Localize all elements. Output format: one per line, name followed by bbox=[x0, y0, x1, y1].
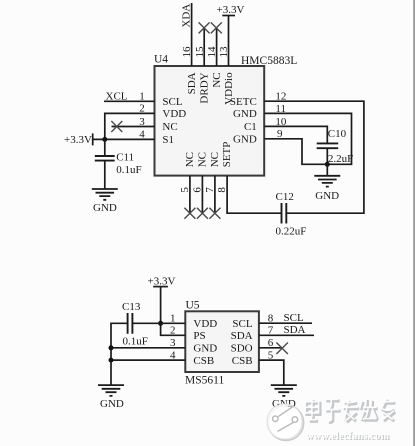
svg-text:2: 2 bbox=[170, 325, 176, 337]
svg-text:15: 15 bbox=[194, 46, 206, 58]
svg-text:9: 9 bbox=[277, 128, 283, 140]
svg-text:8: 8 bbox=[216, 187, 228, 193]
svg-text:CSB: CSB bbox=[232, 355, 253, 367]
svg-text:6: 6 bbox=[268, 337, 274, 349]
junction dot C10/GND bbox=[325, 162, 330, 167]
svg-text:4: 4 bbox=[170, 349, 176, 361]
svg-text:DRDY: DRDY bbox=[199, 72, 211, 103]
svg-text:SETC: SETC bbox=[230, 96, 257, 108]
svg-text:www.elecfans.com: www.elecfans.com bbox=[306, 431, 389, 442]
svg-text:C12: C12 bbox=[276, 191, 294, 203]
svg-text:GND: GND bbox=[193, 342, 217, 354]
IC U4 HMC5883L chip body bbox=[155, 66, 265, 176]
svg-text:8: 8 bbox=[268, 312, 274, 324]
wire pin1 SCL / XCL net bbox=[104, 100, 155, 102]
svg-text:S1: S1 bbox=[162, 134, 174, 146]
svg-text:SDA: SDA bbox=[284, 324, 306, 336]
no-connect X pin3 bbox=[111, 121, 122, 132]
ground symbol below C10 bbox=[314, 176, 340, 187]
wire pin7 SDA (U5) bbox=[259, 334, 314, 336]
junction dot +3.3V/C11 bbox=[102, 137, 107, 142]
svg-text:+3.3V: +3.3V bbox=[64, 134, 92, 146]
wire pin15 bbox=[203, 28, 205, 66]
ground symbol below C11 bbox=[92, 189, 118, 200]
svg-text:SCL: SCL bbox=[284, 312, 304, 324]
svg-text:NC: NC bbox=[162, 121, 177, 133]
svg-text:11: 11 bbox=[275, 103, 286, 115]
wire +3.3V junction down to C11 bbox=[104, 139, 106, 156]
no-connect X pin5 bbox=[184, 208, 195, 219]
junction dot pin3/rail bbox=[109, 345, 114, 350]
svg-text:SDA: SDA bbox=[186, 72, 198, 94]
capacitor C12 plates bbox=[282, 203, 287, 224]
svg-text:U5: U5 bbox=[186, 299, 200, 311]
no-connect X pin14 bbox=[211, 22, 222, 33]
svg-text:C11: C11 bbox=[116, 151, 134, 163]
wire pin4 S1 from +3.3V bbox=[93, 138, 155, 140]
no-connect X pin6 (U5) bbox=[276, 343, 288, 355]
wire pin5 NC stub bbox=[189, 176, 191, 214]
wire +3.3V down to pin2 bbox=[161, 287, 186, 336]
wire pin10 C1 to C10 top bbox=[264, 126, 327, 143]
page right border bbox=[413, 0, 415, 446]
svg-text:3: 3 bbox=[170, 337, 176, 349]
wire pin16 XDA vertical bbox=[191, 3, 193, 66]
svg-text:GND: GND bbox=[315, 190, 339, 202]
ground symbol U5 left rail bbox=[98, 385, 124, 396]
svg-text:CSB: CSB bbox=[193, 355, 214, 367]
IC U5 MS5611 chip body bbox=[185, 311, 259, 372]
capacitor C13 plates bbox=[128, 313, 133, 334]
wire C11 to GND bbox=[104, 161, 106, 189]
svg-text:3: 3 bbox=[139, 116, 145, 128]
wire C10 bottom to junction bbox=[326, 148, 328, 164]
svg-text:C13: C13 bbox=[122, 301, 141, 313]
no-connect X pin7 bbox=[209, 208, 220, 219]
capacitor C11 plates bbox=[95, 156, 115, 161]
wire pin13 to +3.3V bbox=[228, 16, 230, 67]
wire pin14 bbox=[216, 28, 218, 66]
power +3.3V bar (top) bbox=[222, 15, 235, 17]
wire pin3 GND bbox=[111, 347, 185, 349]
svg-text:C10: C10 bbox=[328, 128, 347, 140]
svg-text:10: 10 bbox=[275, 116, 287, 128]
svg-text:14: 14 bbox=[206, 46, 218, 58]
watermark chinese text bbox=[307, 400, 396, 423]
svg-text:GND: GND bbox=[233, 133, 257, 145]
svg-text:XCL: XCL bbox=[106, 90, 128, 102]
svg-text:NC: NC bbox=[196, 152, 208, 167]
svg-text:NC: NC bbox=[184, 152, 196, 167]
svg-text:1: 1 bbox=[170, 313, 176, 325]
wire pin9 GND down and right to junction bbox=[264, 139, 327, 165]
svg-text:C1: C1 bbox=[244, 121, 257, 133]
svg-text:7: 7 bbox=[268, 325, 274, 337]
svg-text:U4: U4 bbox=[154, 54, 168, 66]
svg-text:1: 1 bbox=[139, 91, 145, 103]
svg-text:SETP: SETP bbox=[221, 142, 233, 168]
junction dot pin4/rail bbox=[109, 358, 114, 363]
svg-text:GND: GND bbox=[233, 108, 257, 120]
svg-text:VDD: VDD bbox=[162, 108, 186, 120]
wire pin6 NC stub bbox=[201, 176, 203, 214]
wire pin4 CSB bbox=[111, 359, 185, 361]
svg-text:PS: PS bbox=[193, 330, 205, 342]
svg-text:5: 5 bbox=[179, 187, 191, 193]
junction dot +3.3V/pin1 bbox=[158, 321, 163, 326]
watermark logo circle bbox=[267, 404, 304, 441]
svg-text:GND: GND bbox=[100, 398, 124, 410]
capacitor C10 plates bbox=[317, 143, 339, 148]
svg-text:2.2uF: 2.2uF bbox=[328, 153, 353, 165]
svg-text:0.1uF: 0.1uF bbox=[116, 164, 141, 176]
svg-text:NC: NC bbox=[209, 152, 221, 167]
svg-text:HMC5883L: HMC5883L bbox=[241, 55, 297, 67]
svg-text:0.1uF: 0.1uF bbox=[123, 335, 148, 347]
wire pin8 SCL (U5) bbox=[259, 322, 312, 324]
watermark www.elecfans.com bbox=[306, 431, 390, 443]
svg-text:7: 7 bbox=[204, 187, 216, 193]
ground symbol U5 right bbox=[271, 385, 297, 396]
wire pin3 NC stub bbox=[112, 126, 155, 128]
no-connect X pin15 bbox=[199, 22, 210, 33]
power +3.3V bar (left) bbox=[92, 133, 94, 145]
no-connect X pin6 bbox=[197, 208, 208, 219]
wire pin1 VDD bbox=[132, 322, 185, 324]
wire junction to ground bbox=[326, 164, 328, 176]
wire pin6 SDO stub bbox=[259, 347, 283, 349]
svg-text:SCL: SCL bbox=[232, 318, 252, 330]
power +3.3V bar (U5) bbox=[153, 286, 168, 288]
svg-text:4: 4 bbox=[139, 129, 145, 141]
svg-text:+3.3V: +3.3V bbox=[148, 275, 176, 287]
svg-text:+3.3V: +3.3V bbox=[217, 4, 245, 16]
svg-text:6: 6 bbox=[192, 187, 204, 193]
svg-text:5: 5 bbox=[268, 349, 274, 361]
svg-text:16: 16 bbox=[181, 46, 193, 58]
svg-text:VDD: VDD bbox=[193, 318, 217, 330]
svg-text:13: 13 bbox=[218, 46, 230, 58]
wire pin12 SETC to right rail bbox=[264, 101, 364, 213]
svg-text:MS5611: MS5611 bbox=[185, 375, 224, 387]
wire pin8 SETP to C12 bbox=[227, 176, 281, 214]
svg-text:NC: NC bbox=[211, 72, 223, 87]
svg-text:0.22uF: 0.22uF bbox=[276, 225, 307, 237]
wire C13 left to rail bbox=[111, 323, 128, 385]
svg-text:SDO: SDO bbox=[231, 342, 253, 354]
svg-text:GND: GND bbox=[93, 202, 117, 214]
svg-text:12: 12 bbox=[275, 91, 286, 103]
svg-text:SCL: SCL bbox=[162, 96, 182, 108]
svg-text:SDA: SDA bbox=[231, 330, 253, 342]
wire pin11 GND to C10 bottom bbox=[264, 113, 351, 164]
wire pin7 NC stub bbox=[214, 176, 216, 214]
wire pin5 CSB down to ground bbox=[259, 360, 284, 385]
wire pin2 VDD with turn down to +3.3V junction bbox=[105, 113, 155, 139]
svg-text:2: 2 bbox=[139, 103, 145, 115]
svg-text:XDA: XDA bbox=[181, 4, 193, 28]
